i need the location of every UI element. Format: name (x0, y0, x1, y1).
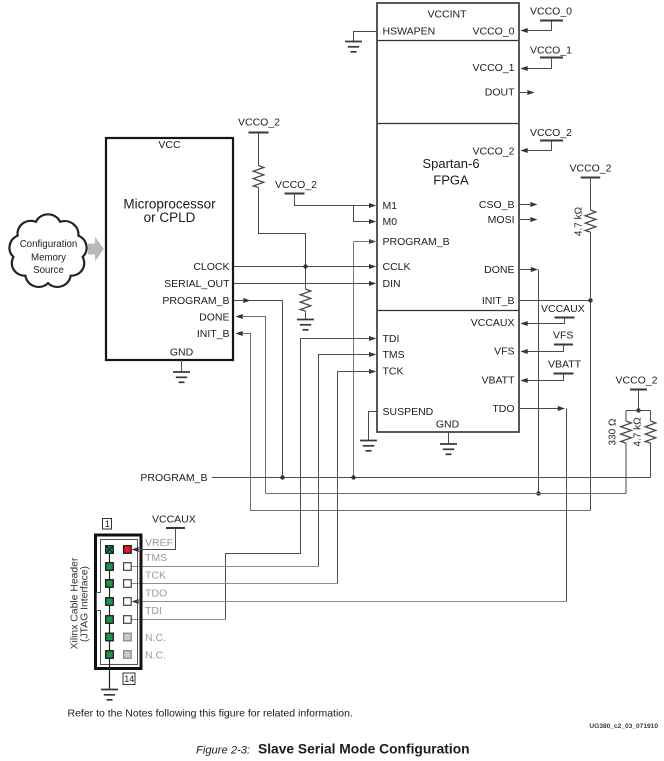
ground JTAG header (101, 690, 118, 700)
wire SERIAL_OUT to DIN (234, 281, 376, 286)
svg-text:M1: M1 (383, 200, 398, 212)
pin 13 green GND (106, 651, 114, 659)
svg-text:VCCO_2: VCCO_2 (530, 127, 572, 139)
svg-text:DONE: DONE (199, 311, 229, 323)
pin 6 TCK (124, 580, 132, 588)
svg-text:VCCO_2: VCCO_2 (472, 146, 514, 158)
pin 1 number box (103, 519, 112, 530)
gray block arrow cloud to microprocessor (88, 237, 104, 262)
svg-text:or CPLD: or CPLD (144, 210, 196, 225)
svg-text:TCK: TCK (383, 366, 404, 378)
svg-text:VCCO_1: VCCO_1 (530, 45, 572, 57)
pin 2 red VREF (124, 546, 132, 554)
FPGA right pin labels (471, 26, 515, 416)
svg-text:Configuration: Configuration (20, 239, 78, 250)
wire FPGA GND pin (448, 432, 450, 444)
wire TCK route header to FPGA (132, 369, 377, 584)
wire HSWAPEN to ground (354, 32, 378, 42)
svg-text:VCCAUX: VCCAUX (541, 303, 585, 315)
wire INIT_B vertical down (590, 301, 592, 511)
wire DONE net horizontal (266, 493, 627, 495)
FPGA left pin labels (383, 26, 450, 418)
pin 5 green GND (106, 580, 114, 588)
svg-text:CSO_B: CSO_B (479, 199, 515, 211)
svg-text:Figure 2-3:: Figure 2-3: (196, 745, 250, 757)
pin 1 green GND (106, 546, 114, 554)
power VCCAUX header supply (132, 514, 196, 553)
junction resistor tee (636, 408, 640, 412)
resistor 4.7 kOhm PROGRAM_B pull-up (633, 411, 656, 478)
svg-text:SUSPEND: SUSPEND (383, 406, 434, 418)
svg-text:Memory: Memory (31, 252, 66, 263)
svg-text:Refer to the Notes following t: Refer to the Notes following this figure… (68, 708, 353, 720)
svg-text:INIT_B: INIT_B (197, 328, 230, 340)
resistor CCLK pull-up (253, 166, 305, 290)
ground CCLK pull-down (297, 320, 314, 330)
wire microprocessor PROGRAM_B with arrow (234, 298, 283, 478)
FPGA U1 Spartan-6 box (377, 3, 519, 432)
svg-text:VCCO_2: VCCO_2 (616, 375, 658, 387)
wire PROGRAM_B net (212, 477, 651, 479)
wire VCCO_2 to pin (521, 148, 552, 153)
wire VCCO_1 to pin (521, 66, 552, 71)
svg-text:VCCO_2: VCCO_2 (238, 117, 280, 129)
configuration memory source cloud (9, 214, 86, 287)
svg-text:PROGRAM_B: PROGRAM_B (162, 295, 229, 307)
svg-text:VCCO_2: VCCO_2 (570, 163, 612, 175)
pin 4 TMS (124, 563, 132, 571)
svg-text:Source: Source (33, 265, 64, 276)
svg-text:VCCO_1: VCCO_1 (472, 62, 514, 74)
svg-text:330 Ω: 330 Ω (608, 418, 619, 445)
wire microprocessor GND pin (181, 360, 183, 372)
resistor 330 Ohm DONE pull-up (608, 411, 632, 494)
svg-text:TDI: TDI (145, 605, 162, 617)
svg-text:M0: M0 (383, 216, 398, 228)
svg-text:4.7 kΩ: 4.7 kΩ (633, 417, 644, 447)
figure caption (196, 742, 470, 757)
ground SUSPEND (360, 441, 377, 451)
power VCCO_2 INIT_B pull-up supply (570, 163, 612, 210)
JTAG header inner box with key notch (97, 540, 138, 665)
ground FPGA GND (440, 444, 457, 454)
svg-text:SERIAL_OUT: SERIAL_OUT (164, 278, 230, 290)
pin 12 NC (124, 633, 132, 641)
wire TDI route header to FPGA (132, 336, 377, 620)
svg-text:VCCO_0: VCCO_0 (530, 6, 572, 18)
svg-text:GND: GND (436, 419, 460, 431)
svg-text:TCK: TCK (145, 570, 166, 582)
junction DONE net (536, 491, 540, 495)
junction PROGRAM_B micro (280, 475, 284, 479)
wire TDO route FPGA to header (132, 406, 567, 604)
wire SUSPEND to ground (369, 412, 378, 441)
svg-text:1: 1 (105, 519, 110, 529)
ground microprocessor GND (173, 372, 190, 382)
svg-text:Slave Serial Mode Configuratio: Slave Serial Mode Configuration (258, 742, 470, 757)
svg-text:CLOCK: CLOCK (193, 261, 229, 273)
wire DOUT output arrow (520, 90, 535, 95)
pin 8 TDO (124, 598, 132, 606)
svg-text:TDI: TDI (383, 333, 400, 345)
svg-text:TMS: TMS (145, 552, 167, 564)
power VCCO_2 pin supply (530, 127, 572, 150)
wire INIT_B to microprocessor (236, 331, 591, 511)
junction PROGRAM_B fpga (351, 475, 355, 479)
wire ground bus through odd pins (109, 550, 111, 690)
svg-text:TMS: TMS (383, 349, 405, 361)
resistor 4.7 kOhm INIT_B pull-up (574, 206, 596, 300)
power VCCAUX pin supply (521, 303, 585, 326)
ground HSWAPEN (345, 42, 362, 52)
wire TMS route header to FPGA (132, 352, 377, 567)
svg-text:TDO: TDO (145, 588, 167, 600)
power VCCO_2 bottom right (616, 375, 658, 411)
svg-text:VCCO_0: VCCO_0 (472, 26, 514, 38)
pin 14 NC (124, 651, 132, 659)
svg-text:VREF: VREF (145, 537, 173, 549)
wire FPGA PROGRAM_B pin (354, 239, 377, 478)
pin 14 number box (123, 673, 135, 685)
svg-text:Spartan-6: Spartan-6 (422, 156, 479, 171)
power VBATT supply (521, 359, 582, 383)
svg-text:DONE: DONE (484, 264, 514, 276)
svg-text:PROGRAM_B: PROGRAM_B (383, 236, 450, 248)
wire M0 branch (354, 206, 377, 225)
wire VCCO_0 to pin (521, 28, 552, 33)
svg-text:VBATT: VBATT (548, 359, 582, 371)
junction CCLK termination (303, 264, 307, 268)
wire DONE output with arrow (520, 267, 539, 494)
svg-text:14: 14 (124, 674, 134, 684)
svg-text:PROGRAM_B: PROGRAM_B (140, 472, 207, 484)
wire INIT_B pin net (520, 300, 591, 302)
power VCCO_0 (530, 6, 572, 31)
svg-text:UG380_c2_03_071910: UG380_c2_03_071910 (589, 723, 658, 730)
pin 11 green GND (106, 633, 114, 641)
svg-text:DIN: DIN (383, 278, 401, 290)
junction INIT_B pull-up (588, 298, 592, 302)
resistor CCLK pull-down (300, 289, 311, 319)
power VCCO_2 CCLK pull-up supply (238, 117, 280, 166)
svg-text:VBATT: VBATT (481, 375, 515, 387)
JTAG header outer box (96, 535, 142, 669)
svg-text:N.C.: N.C. (145, 650, 166, 662)
svg-text:N.C.: N.C. (145, 632, 166, 644)
svg-text:VFS: VFS (553, 330, 573, 342)
svg-text:VCCAUX: VCCAUX (471, 317, 515, 329)
svg-text:CCLK: CCLK (383, 261, 411, 273)
microprocessor box (106, 138, 233, 360)
microprocessor right pin labels (162, 261, 230, 340)
pin 9 green GND (106, 616, 114, 624)
svg-text:VCCINT: VCCINT (427, 9, 467, 21)
svg-text:TDO: TDO (492, 403, 514, 415)
svg-text:VCCAUX: VCCAUX (152, 514, 196, 526)
pin 10 TDI (124, 616, 132, 624)
svg-text:VFS: VFS (494, 346, 514, 358)
svg-text:4.7 kΩ: 4.7 kΩ (574, 206, 585, 236)
power VCCO_2 M1 M0 supply (275, 179, 376, 208)
svg-text:VCC: VCC (158, 139, 181, 151)
power VFS supply (521, 330, 574, 354)
svg-text:VCCO_2: VCCO_2 (275, 179, 317, 191)
wire MOSI output arrow (520, 217, 538, 222)
svg-text:DOUT: DOUT (485, 87, 515, 99)
svg-text:FPGA: FPGA (433, 173, 469, 188)
power VCCO_1 (530, 45, 572, 69)
svg-text:MOSI: MOSI (488, 214, 515, 226)
svg-text:(JTAG Interface): (JTAG Interface) (80, 566, 91, 642)
pin 7 green GND (106, 598, 114, 606)
wire DONE to microprocessor (236, 314, 266, 494)
svg-text:HSWAPEN: HSWAPEN (383, 26, 436, 38)
pin 3 green GND (106, 563, 114, 571)
wire CSO_B output arrow (520, 202, 538, 207)
wire CLOCK to CCLK (234, 264, 376, 269)
wire resistor tee (626, 410, 651, 412)
svg-text:GND: GND (170, 347, 194, 359)
svg-text:INIT_B: INIT_B (482, 295, 515, 307)
